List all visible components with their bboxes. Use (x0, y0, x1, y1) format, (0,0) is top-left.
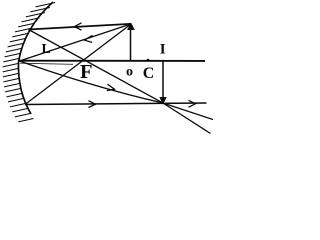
reflected ray 1: M1 through F to image tip, extended (29, 30, 211, 134)
mirror hatching (3, 3, 56, 122)
svg-text:L: L (42, 42, 51, 57)
svg-text:I: I (160, 42, 166, 58)
principal axis (20, 60, 206, 62)
incident ray 2: object tip to pole P (20, 24, 132, 61)
object arrowhead (127, 23, 135, 31)
double-stroke of axis near pole (20, 63, 73, 64)
reflected ray 3: M2 parallel to axis through image tip (25, 103, 207, 105)
image arrowhead (inverted image tip) (159, 97, 166, 105)
arrowhead on reflected ray 2 (pointing down-right) (107, 84, 115, 90)
incident ray 3: object tip through F to mirror point M2 (25, 24, 131, 105)
concave mirror arc (18, 2, 53, 114)
object arrow shaft at O (130, 28, 132, 61)
svg-text:o: o (126, 65, 133, 80)
arrowhead on reflected ray 3 at x=183 (pointing right) (189, 100, 196, 107)
svg-text:C: C (143, 65, 155, 82)
image arrow shaft at I (162, 61, 164, 98)
reflected ray 2: pole P to image tip, extended (20, 61, 214, 120)
arrowhead on incident ray 1 (pointing left) (75, 23, 82, 30)
arrowhead on reflected ray 3 at x=93 (pointing right) (89, 101, 96, 108)
arrowhead on incident ray 2 (pointing down-left) (85, 35, 93, 42)
centre of curvature dot C (147, 59, 150, 62)
svg-text:F: F (80, 61, 93, 83)
incident ray 1: object tip to mirror point M1 (nearly parallel to axis) (29, 24, 132, 30)
